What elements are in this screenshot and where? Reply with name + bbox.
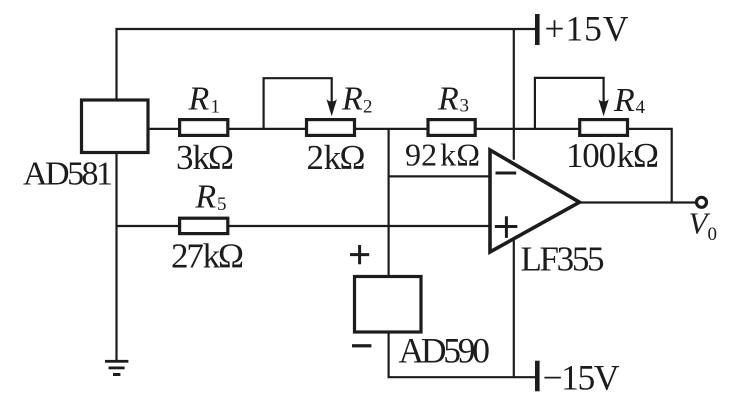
svg-text:AD581: AD581 (23, 156, 113, 193)
svg-text:3: 3 (460, 96, 470, 117)
resistor R3 body (428, 120, 475, 136)
wire R4 to feedback corner down to output (628, 129, 672, 203)
svg-text:AD590: AD590 (399, 331, 491, 371)
svg-text:R: R (613, 82, 635, 119)
label AD590 plus terminal (350, 245, 369, 264)
wire op-amp V- pin (513, 239, 515, 377)
label AD590 minus terminal (352, 344, 371, 347)
wire R5 to noninverting input (228, 225, 490, 227)
svg-text:LF355: LF355 (521, 240, 605, 279)
ground symbol (105, 360, 128, 376)
wire AD581 to R1 (148, 128, 180, 130)
svg-text:R: R (194, 179, 216, 216)
resistor R5 body (180, 218, 228, 233)
resistor R1 body (180, 120, 228, 136)
R2 wiper arrowhead (327, 99, 337, 116)
svg-text:R: R (341, 81, 363, 118)
wire AD590 bottom lead (388, 332, 390, 377)
AD590 box U3 (355, 277, 422, 333)
svg-text:R: R (437, 81, 459, 118)
svg-text:100 kΩ: 100 kΩ (566, 136, 659, 175)
op-amp U1 triangle LF355 (490, 150, 580, 252)
output terminal circle node V0 (697, 197, 707, 207)
svg-text:3 kΩ: 3 kΩ (176, 138, 234, 177)
op-amp noninverting input plus mark (495, 216, 517, 238)
wire AD581 down to ground (115, 153, 117, 361)
svg-text:4: 4 (636, 97, 646, 118)
svg-text:1: 1 (211, 97, 221, 118)
svg-text:0: 0 (708, 224, 718, 245)
svg-text:2: 2 (363, 97, 373, 118)
svg-text:2 kΩ: 2 kΩ (307, 138, 366, 177)
svg-text:27 kΩ: 27 kΩ (171, 237, 244, 276)
wire op-amp output to terminal (580, 201, 697, 203)
op-amp inverting input minus mark (496, 172, 517, 175)
wire R5 left segment (117, 225, 180, 227)
wire R2 wiper loop (264, 78, 332, 130)
wire +15V drop to op-amp V+ pin (513, 28, 515, 160)
svg-text:−15V: −15V (543, 358, 620, 398)
+15V supply bar (535, 14, 540, 45)
wire inverting input (389, 175, 490, 177)
resistor R4 body (580, 120, 628, 136)
wire top rail from AD581 to +15V (117, 28, 536, 30)
AD581 box U2 (82, 100, 149, 153)
svg-text:5: 5 (217, 194, 227, 215)
svg-text:R: R (188, 81, 210, 118)
wire bottom rail to -15V (388, 376, 536, 378)
-15V supply bar (535, 361, 540, 392)
svg-text:92 kΩ: 92 kΩ (405, 137, 480, 173)
wire node between R2,R3 down to AD590 (388, 129, 390, 277)
wire AD581 top lead (115, 28, 117, 100)
wire R1 to R2 (228, 128, 307, 130)
R4 wiper arrowhead (598, 99, 608, 116)
wire R4 wiper loop (535, 78, 604, 130)
wire R2 to R3 (355, 128, 429, 130)
resistor R2 body (307, 120, 355, 136)
svg-text:+15V: +15V (545, 9, 629, 49)
wire R3 to R4 (475, 128, 580, 130)
